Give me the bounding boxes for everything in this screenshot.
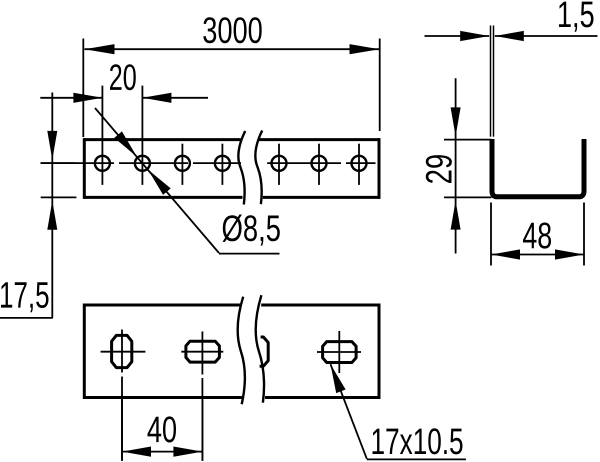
dimension 40 (122, 400, 202, 461)
horizontal centerline (side view) (41, 162, 376, 164)
dimension 3000 (83, 17, 379, 137)
value label 1,5 (559, 2, 594, 32)
cross section U-channel (492, 139, 584, 197)
value label 17,5 (1, 282, 49, 312)
value label &#216;8,5 (223, 215, 280, 246)
break line left (bottom view) (238, 297, 245, 405)
dimension 20 (40, 64, 208, 103)
leader 17x10.5 (331, 364, 467, 459)
value label 29 (426, 155, 452, 183)
slot 2 (horizontal) (186, 341, 220, 362)
value label 20 (110, 64, 136, 90)
slot vertical centerlines (122, 330, 339, 461)
break line right (bottom view) (256, 295, 264, 403)
slot horizontal centerlines (101, 351, 361, 353)
break line left (side view) (238, 131, 245, 205)
hole 7 (352, 156, 367, 171)
hole 2 (135, 156, 150, 171)
slot 3 (horizontal) (323, 342, 357, 363)
break line right (side view) (255, 131, 262, 205)
dimension 29 (426, 78, 492, 253)
dimension 48 (491, 203, 584, 266)
dimension 17,5 (0, 93, 76, 318)
side view bar outline (84, 138, 379, 199)
hole 1 (95, 156, 110, 171)
dimension 1,5 (425, 2, 598, 137)
partial slot at break (260, 337, 269, 366)
hole 5 (272, 156, 287, 171)
bottom view bar outline (84, 304, 379, 400)
slot 1 (vertical) (112, 335, 132, 367)
value label 3000 (203, 17, 261, 43)
leader diameter 8,5 (95, 108, 280, 254)
value label 40 (148, 416, 177, 442)
hole 6 (312, 156, 327, 171)
hole 4 (215, 156, 230, 171)
hole 3 (175, 156, 190, 171)
hole vertical centerlines (102, 86, 359, 185)
value label 48 (523, 223, 551, 249)
value label 17x10.5 (373, 428, 463, 454)
